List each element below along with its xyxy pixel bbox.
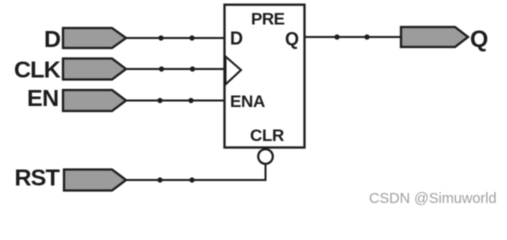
svg-text:RST: RST xyxy=(15,165,61,191)
label D (input port name) xyxy=(44,26,61,52)
output pin Q xyxy=(401,27,468,47)
svg-text:Q: Q xyxy=(470,26,488,52)
svg-text:D: D xyxy=(230,29,243,49)
junction dot Q wire 2 xyxy=(364,34,369,39)
input pin EN xyxy=(63,90,126,111)
input pin CLK xyxy=(63,59,126,80)
junction dot RST wire 2 xyxy=(189,177,194,182)
label Q (output port name) xyxy=(470,26,488,52)
clock triangle xyxy=(226,57,242,85)
junction dot CLK wire 2 xyxy=(190,66,195,71)
svg-text:Q: Q xyxy=(285,29,299,49)
junction dot EN wire 1 xyxy=(157,98,162,103)
junction dot CLK wire 1 xyxy=(159,66,164,71)
wire EN to flip-flop xyxy=(126,100,226,102)
wire Q output xyxy=(305,36,403,38)
junction dot D wire 1 xyxy=(158,35,163,40)
label ENA (pin name) xyxy=(230,92,265,111)
svg-text:EN: EN xyxy=(27,85,59,111)
label RST (input port name) xyxy=(15,165,61,191)
junction dot Q wire 1 xyxy=(334,34,339,39)
input pin RST xyxy=(64,170,126,191)
svg-text:CSDN @Simuworld: CSDN @Simuworld xyxy=(369,191,497,207)
label CLR (pin name) xyxy=(250,126,284,145)
svg-text:CLR: CLR xyxy=(250,126,284,145)
wire RST horizontal xyxy=(126,164,266,180)
label PRE (pin name) xyxy=(251,10,285,29)
label Q (pin name) xyxy=(285,29,299,49)
label CLK (input port name) xyxy=(14,57,61,83)
svg-text:PRE: PRE xyxy=(251,10,285,29)
wire D to flip-flop xyxy=(126,37,226,39)
wire CLK to flip-flop xyxy=(126,68,225,70)
label EN (input port name) xyxy=(27,85,59,111)
inversion bubble on CLR xyxy=(258,149,273,164)
junction dot D wire 2 xyxy=(189,35,194,40)
flip-flop U1 body xyxy=(225,5,305,148)
svg-text:D: D xyxy=(44,26,61,52)
input pin D xyxy=(63,28,126,48)
watermark CSDN @Simuworld xyxy=(369,191,497,207)
svg-text:CLK: CLK xyxy=(14,57,61,83)
label D (pin name) xyxy=(230,29,243,49)
svg-text:ENA: ENA xyxy=(230,92,265,111)
junction dot EN wire 2 xyxy=(188,98,193,103)
junction dot RST wire 1 xyxy=(157,177,162,182)
